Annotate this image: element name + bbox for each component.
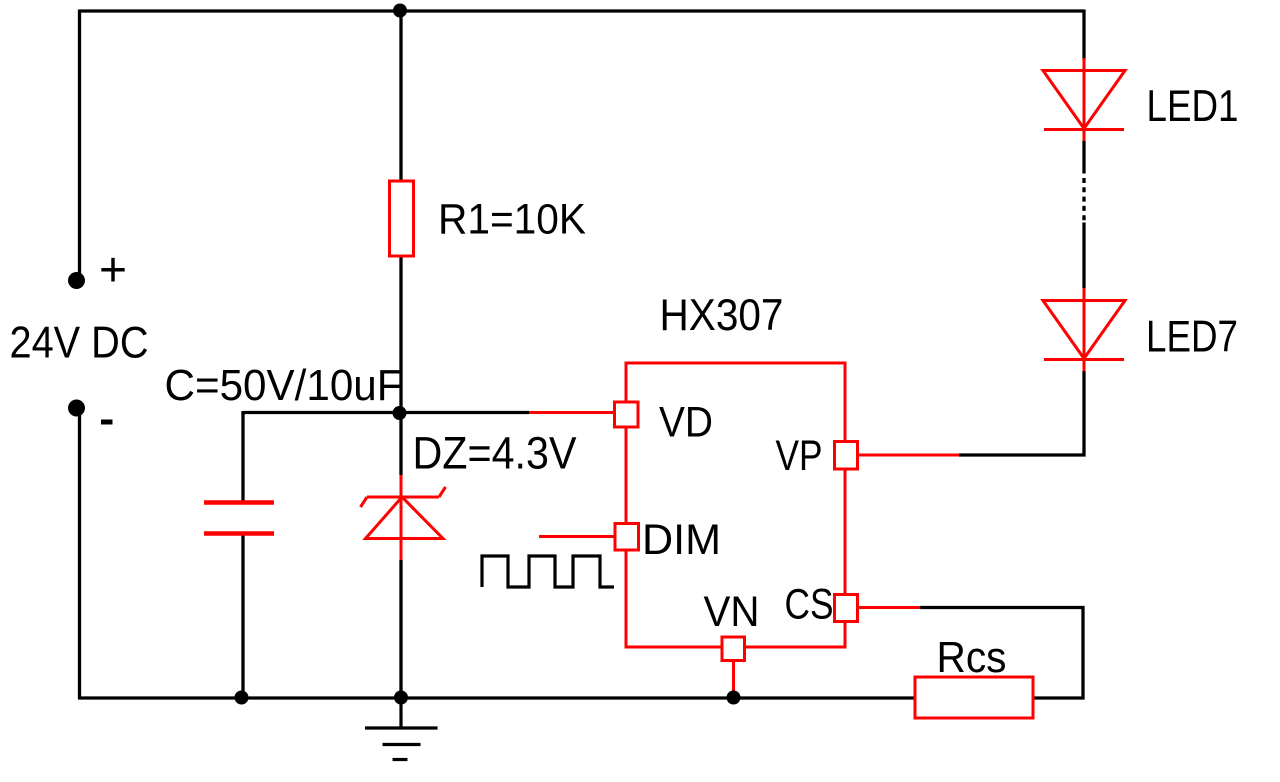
wire CS red xyxy=(858,606,920,609)
capacitor C xyxy=(204,503,274,534)
wire dashed LED string xyxy=(1082,178,1085,222)
node VD junction xyxy=(393,406,407,420)
svg-text:DIM: DIM xyxy=(642,517,721,564)
svg-text:CS: CS xyxy=(785,582,834,629)
wire DIM stub xyxy=(539,535,614,538)
wire bottom rail xyxy=(78,696,915,699)
label - xyxy=(101,420,113,425)
wire cap upper vertical xyxy=(241,411,244,502)
svg-text:LED7: LED7 xyxy=(1146,313,1238,362)
svg-text:VP: VP xyxy=(776,433,823,480)
wire R1 bottom to node xyxy=(399,256,402,475)
pin DIM xyxy=(615,524,639,551)
svg-text:24V DC: 24V DC xyxy=(10,319,149,368)
IC U1 HX307 box xyxy=(626,363,845,647)
wire dashes to LED7 xyxy=(1082,223,1085,289)
svg-text:DZ=4.3V: DZ=4.3V xyxy=(413,428,577,479)
node VN-rail junction xyxy=(727,691,741,705)
wire left rail upper xyxy=(78,10,81,275)
resistor Rcs xyxy=(915,677,1033,718)
PWM waveform xyxy=(482,556,614,587)
ground xyxy=(365,698,438,760)
node top junction xyxy=(393,4,407,18)
svg-text:R1=10K: R1=10K xyxy=(438,196,586,244)
wire top rail xyxy=(79,9,1084,12)
pin VD xyxy=(615,402,639,427)
wire LED1 to dashes xyxy=(1082,141,1085,174)
terminal - dot xyxy=(68,400,85,417)
terminal + dot xyxy=(68,272,85,289)
wire cap top horizontal xyxy=(243,411,529,414)
wire cap lower vertical xyxy=(241,534,244,699)
svg-text:HX307: HX307 xyxy=(660,291,784,340)
pin VN xyxy=(722,637,745,661)
zener diode DZ xyxy=(361,487,446,539)
node zener-rail junction xyxy=(394,691,408,705)
wire VP red xyxy=(858,454,959,457)
svg-text:VN: VN xyxy=(704,589,760,636)
wire zener red segment xyxy=(400,475,403,560)
pin CS xyxy=(835,595,858,622)
wire right rail top to LED1 xyxy=(1082,10,1085,61)
node cap-rail junction xyxy=(235,691,249,705)
wire left rail lower xyxy=(78,412,81,699)
LED1 xyxy=(1043,58,1125,141)
svg-text:C=50V/10uF: C=50V/10uF xyxy=(165,362,403,410)
LED7 xyxy=(1043,288,1125,371)
wire R1 top xyxy=(399,10,402,182)
wire LED7 down to VP corner xyxy=(959,371,1084,455)
wire VN red xyxy=(732,660,735,695)
wire CS to Rcs right xyxy=(920,608,1083,699)
resistor R1 xyxy=(390,181,414,256)
wire VD red xyxy=(529,411,614,414)
wire zener to bottom rail xyxy=(399,560,402,698)
svg-text:+: + xyxy=(99,244,127,297)
svg-text:VD: VD xyxy=(659,400,713,447)
svg-text:Rcs: Rcs xyxy=(937,634,1007,682)
pin VP xyxy=(835,442,858,470)
svg-text:LED1: LED1 xyxy=(1147,82,1239,131)
